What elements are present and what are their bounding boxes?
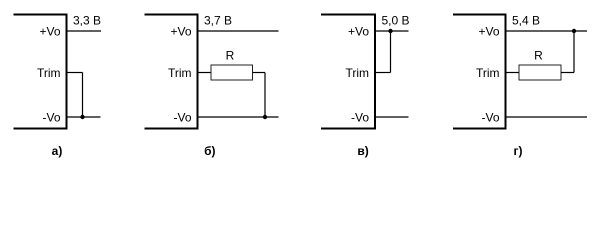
svg-text:+Vo: +Vo [348,25,369,39]
wire Trim-to-+Vo vertical v [390,31,392,73]
svg-text:а): а) [52,144,63,158]
svg-text:-Vo: -Vo [42,111,60,125]
wire +Vo pin b [198,30,279,32]
junction dot a [80,115,84,119]
svg-text:г): г) [514,144,523,158]
wire -Vo pin a [67,116,101,118]
wire corner-to--Vo vertical b [264,73,266,118]
wire Trim pin b to resistor [198,72,212,74]
junction dot g [572,29,576,33]
svg-text:+Vo: +Vo [39,25,60,39]
IC box U2 (circuit b) [145,15,198,129]
svg-text:Trim: Trim [168,66,192,80]
svg-text:+Vo: +Vo [478,25,499,39]
svg-text:-Vo: -Vo [173,111,191,125]
wire -Vo pin v [375,116,409,118]
svg-text:+Vo: +Vo [170,25,191,39]
svg-text:б): б) [204,144,215,158]
wire Trim pin g to resistor [506,72,520,74]
wire resistor-to-corner b [253,72,266,74]
junction dot v [388,29,392,33]
svg-text:Trim: Trim [345,66,369,80]
svg-text:3,7 В: 3,7 В [204,14,232,28]
resistor R (circuit g) [519,65,561,80]
svg-text:Trim: Trim [37,66,61,80]
wire resistor-to-corner g [561,72,574,74]
svg-text:Trim: Trim [476,66,500,80]
wire +Vo pin v [375,30,409,32]
wire -Vo pin b [198,116,279,118]
svg-text:R: R [226,49,235,63]
svg-text:5,0 В: 5,0 В [382,14,410,28]
wire Trim pin v horizontal [375,72,391,74]
resistor R (circuit b) [211,65,253,80]
IC box U3 (circuit v) [321,15,375,129]
svg-text:-Vo: -Vo [351,111,369,125]
junction dot b [263,115,267,119]
svg-text:3,3 В: 3,3 В [73,14,101,28]
IC box U1 (circuit a) [14,15,67,129]
svg-text:-Vo: -Vo [481,111,499,125]
IC box U4 (circuit g) [453,15,506,129]
svg-text:5,4 В: 5,4 В [512,14,540,28]
svg-text:R: R [534,49,543,63]
wire Trim-to--Vo vertical a [82,73,84,118]
wire corner-to-+Vo vertical g [573,31,575,73]
wire Trim pin a horizontal [67,72,83,74]
svg-text:в): в) [357,144,368,158]
wire +Vo pin a [67,30,102,32]
wire -Vo pin g [506,116,588,118]
wire +Vo pin g [506,30,588,32]
